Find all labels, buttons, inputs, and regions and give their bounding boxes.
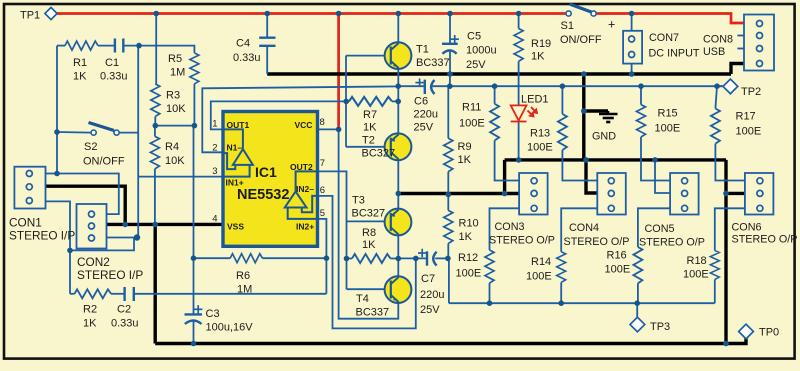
svg-text:USB: USB: [703, 46, 725, 58]
wire CON7 pins: [631, 14, 633, 31]
svg-text:10K: 10K: [166, 103, 186, 115]
svg-text:5: 5: [320, 208, 325, 219]
wire black tee down to rail4: [153, 224, 156, 343]
connector CON3: [519, 173, 548, 215]
svg-text:25V: 25V: [466, 59, 486, 71]
connector CON1: [14, 167, 45, 209]
wire IC pin8 blue drop / T4 collector return: [317, 129, 398, 318]
resistor R8: [352, 254, 391, 263]
svg-text:T4: T4: [356, 293, 369, 305]
svg-text:ON/OFF: ON/OFF: [560, 34, 602, 46]
capacitor C2: [125, 287, 134, 301]
wire T3 emitter to rail2: [397, 194, 399, 209]
svg-text:CON3: CON3: [495, 221, 525, 233]
resistor R11: [490, 104, 499, 141]
svg-text:TP0: TP0: [759, 327, 779, 339]
op-amp N2 triangle: [285, 171, 318, 219]
wire red-rail drop to R3: [155, 14, 157, 85]
wire TP3 drop: [636, 303, 638, 318]
wire LED1 cathode to rail3: [518, 122, 520, 160]
svg-text:25V: 25V: [414, 122, 434, 134]
svg-text:R14: R14: [531, 256, 551, 268]
svg-text:R13: R13: [530, 128, 550, 140]
capacitor C4: [259, 38, 275, 46]
svg-text:R8: R8: [362, 227, 376, 239]
wire IC pin7 to base rail T3 T4: [317, 171, 346, 289]
svg-text:R11: R11: [462, 102, 481, 114]
svg-text:+: +: [608, 18, 615, 32]
svg-text:0.33u: 0.33u: [111, 318, 139, 330]
wire R15 chain to CON5 top: [640, 86, 642, 104]
switch S1: [566, 4, 596, 16]
svg-text:100E: 100E: [683, 269, 709, 281]
svg-text:R10: R10: [459, 218, 479, 230]
ground rail1 black: [267, 72, 731, 75]
svg-text:1: 1: [212, 119, 217, 130]
wire C1 line: [57, 45, 65, 47]
wire red VCC drop to IC pin8: [337, 14, 340, 130]
capacitor C7: [427, 251, 437, 265]
connector CON4: [597, 173, 626, 215]
svg-text:7: 7: [320, 158, 325, 169]
svg-text:0.33u: 0.33u: [233, 52, 261, 64]
switch S2: [89, 123, 120, 136]
svg-text:25V: 25V: [420, 304, 440, 316]
connector CON7: [623, 31, 642, 64]
svg-text:1K: 1K: [83, 318, 97, 330]
wire R3 bottom lead: [154, 117, 156, 126]
resistor R16: [633, 247, 642, 283]
svg-text:ON/OFF: ON/OFF: [83, 156, 125, 168]
wire C7 line: [398, 257, 427, 259]
svg-text:VSS: VSS: [227, 222, 244, 232]
svg-text:100E: 100E: [527, 142, 553, 154]
svg-text:100E: 100E: [526, 271, 552, 283]
svg-text:R18: R18: [687, 255, 707, 267]
wire C2 to IN2+ riser: [134, 293, 327, 295]
svg-text:OUT1: OUT1: [227, 120, 250, 130]
wire T1 emitter to T2: [397, 69, 399, 134]
svg-text:CON1: CON1: [9, 216, 42, 230]
wire T2 collector to rail2: [397, 160, 399, 193]
wire C7 right down to out rail: [448, 258, 450, 303]
wire TP2 stub: [717, 85, 724, 87]
wire R5 bottom lead down to R6: [193, 84, 195, 126]
svg-text:CON4: CON4: [569, 222, 599, 234]
svg-text:R17: R17: [736, 111, 756, 123]
wire CON1 pin1 node to CON2 pin1: [57, 174, 119, 215]
out rail bottom blue: [449, 302, 715, 304]
svg-text:IN2+: IN2+: [296, 222, 314, 232]
svg-text:1000u: 1000u: [466, 45, 497, 57]
svg-text:LED1: LED1: [521, 94, 549, 106]
svg-text:STEREO I/P: STEREO I/P: [9, 229, 75, 243]
svg-text:GND: GND: [592, 131, 616, 143]
svg-text:C6: C6: [414, 96, 428, 108]
connector CON2: [77, 204, 107, 249]
wire CON5 middle from rail3: [655, 160, 670, 193]
transistor T4: [385, 276, 412, 303]
resistor R18: [710, 251, 719, 280]
wire T3 T4 node: [397, 235, 399, 276]
capacitor C1: [115, 39, 123, 53]
svg-text:100E: 100E: [605, 264, 631, 276]
svg-text:1K: 1K: [362, 239, 376, 251]
resistor R12: [485, 250, 494, 283]
resistor R14: [557, 252, 566, 283]
wire R2 C2 line: [70, 293, 75, 295]
svg-text:TP1: TP1: [20, 10, 40, 22]
wire CON8 stubs: [737, 35, 744, 37]
resistor R15: [637, 105, 646, 137]
svg-text:STEREO I/P: STEREO I/P: [77, 268, 143, 282]
svg-text:4: 4: [212, 214, 217, 225]
test point TP2: [723, 79, 738, 94]
wire R18 chain CON6 bottom: [715, 208, 745, 250]
capacitor C3: [185, 314, 203, 324]
svg-text:VCC: VCC: [295, 120, 313, 130]
svg-text:R5: R5: [168, 53, 182, 65]
wire R4 top lead: [154, 126, 156, 137]
wire R13 chain to CON4 top: [561, 86, 563, 114]
svg-text:1K: 1K: [363, 122, 377, 134]
svg-text:100E: 100E: [655, 123, 681, 135]
svg-text:1K: 1K: [531, 51, 545, 63]
svg-text:220u: 220u: [420, 289, 444, 301]
ground rail4 black bottom: [155, 342, 726, 345]
wire CON1 pin1 stub: [46, 173, 58, 175]
resistor R3: [151, 84, 160, 116]
svg-text:BC337: BC337: [356, 307, 390, 319]
wire C4 leads: [266, 14, 268, 38]
svg-text:R4: R4: [165, 141, 179, 153]
svg-text:BC327: BC327: [362, 148, 396, 160]
svg-text:R12: R12: [458, 252, 478, 264]
wire rail1 to audio line riser: [449, 74, 451, 86]
svg-text:NE5532: NE5532: [237, 187, 289, 203]
svg-text:100u,16V: 100u,16V: [206, 322, 254, 334]
svg-text:1K: 1K: [459, 231, 473, 243]
wire black rail3 down to rail2: [503, 160, 506, 194]
transistor T1: [385, 42, 412, 69]
wire CON1 pin3 stub down: [46, 201, 71, 293]
resistor R2: [75, 289, 111, 298]
svg-text:1M: 1M: [170, 67, 185, 79]
wire R6 to C3: [193, 258, 195, 314]
svg-text:1K: 1K: [73, 71, 87, 83]
wire base rail T1 T2: [345, 56, 347, 147]
svg-text:STEREO O/P: STEREO O/P: [489, 235, 555, 247]
svg-text:STEREO O/P: STEREO O/P: [639, 237, 705, 249]
wire black CON6 middle / down to rail4: [724, 160, 727, 344]
capacitor C6: [425, 80, 435, 94]
svg-text:220u: 220u: [414, 109, 438, 121]
svg-text:100E: 100E: [736, 126, 762, 138]
svg-text:BC327: BC327: [352, 208, 386, 220]
svg-text:2: 2: [212, 143, 217, 154]
svg-text:TP3: TP3: [650, 321, 670, 333]
svg-text:CON5: CON5: [645, 223, 675, 235]
wire S2 connections: [57, 131, 91, 134]
wire red after S1 to CON8: [596, 14, 744, 24]
transistor T3: [385, 209, 412, 236]
wire input select vertical: [137, 46, 139, 238]
svg-text:R9: R9: [458, 141, 472, 153]
resistor R9: [444, 138, 453, 171]
wire R9 leads: [447, 86, 449, 138]
svg-text:C4: C4: [236, 38, 250, 50]
svg-text:IN1+: IN1+: [226, 178, 244, 188]
svg-text:C7: C7: [421, 273, 435, 285]
wire C5 leads: [449, 14, 451, 44]
wire R3/R5 node: [155, 125, 194, 127]
connector CON5: [670, 173, 699, 215]
svg-text:0.33u: 0.33u: [100, 71, 128, 83]
wire black CON2 pin2 stub: [107, 223, 126, 226]
test point TP3: [630, 317, 645, 332]
svg-text:C3: C3: [206, 308, 220, 320]
svg-text:STEREO O/P: STEREO O/P: [564, 236, 630, 248]
wire black TP0 link: [726, 338, 746, 344]
svg-text:N1–: N1–: [227, 143, 243, 153]
test point TP1: [45, 7, 57, 19]
svg-text:R2: R2: [83, 304, 97, 316]
op-amp N1 triangle: [223, 129, 253, 176]
svg-text:STEREO O/P: STEREO O/P: [732, 234, 798, 246]
svg-text:T2: T2: [362, 135, 375, 147]
svg-text:OUT2: OUT2: [290, 162, 313, 172]
resistor R13: [558, 114, 567, 150]
svg-text:R19: R19: [531, 38, 551, 50]
wire R14 chain CON4 bottom: [561, 208, 597, 251]
wire R11 chain to CON3 top: [494, 86, 496, 104]
wire black GND drop and CON4 middle: [584, 74, 608, 111]
node +5V red rail: [57, 12, 566, 15]
svg-text:IN2–: IN2–: [296, 184, 314, 194]
svg-text:CON7: CON7: [649, 32, 679, 44]
svg-text:R6: R6: [236, 270, 250, 282]
svg-text:R1: R1: [73, 57, 87, 69]
wire CON2 pin3 stub: [107, 237, 139, 239]
wire R17 chain to CON6 top: [715, 86, 717, 108]
resistor R1: [65, 41, 98, 50]
resistor R7: [349, 97, 392, 106]
wire IC pin1 to R7: [211, 101, 346, 129]
op-amp U1 IC1 body: [223, 112, 318, 247]
wire R4 bottom to VSS tee: [154, 169, 156, 225]
resistor R17: [711, 109, 720, 144]
LED LED1: [511, 105, 537, 121]
svg-text:R15: R15: [658, 108, 678, 120]
svg-text:T3: T3: [352, 195, 365, 207]
wire R6 leads: [194, 257, 231, 259]
svg-text:100E: 100E: [459, 118, 485, 130]
svg-text:S1: S1: [561, 20, 574, 32]
svg-text:IC1: IC1: [255, 164, 277, 180]
resistor R4: [150, 136, 159, 168]
wire black CON8 pin4 to rail1: [731, 64, 744, 75]
svg-text:3: 3: [212, 166, 217, 177]
wire T1 collector to red rail: [397, 14, 399, 43]
svg-text:10K: 10K: [165, 155, 185, 167]
svg-text:C5: C5: [467, 31, 481, 43]
svg-text:1M: 1M: [237, 284, 252, 296]
wire R19 leads: [518, 14, 520, 29]
wire C3 bottom to rail4: [193, 321, 195, 344]
ground rail3 black: [505, 158, 726, 161]
svg-text:BC337: BC337: [416, 57, 450, 69]
svg-text:C1: C1: [105, 57, 119, 69]
svg-text:C2: C2: [117, 304, 131, 316]
wire CON2 pin3 riser: [70, 238, 134, 251]
resistor R6: [230, 254, 262, 263]
connector CON8: [744, 15, 774, 71]
svg-text:CON2: CON2: [77, 255, 110, 269]
capacitor C5: [442, 44, 458, 54]
resistor R5: [190, 53, 199, 84]
resistor R19: [514, 29, 523, 62]
svg-text:CON8: CON8: [703, 34, 733, 46]
wire IC pin3 line: [138, 176, 223, 178]
test point TP0: [739, 324, 754, 339]
wire IC pin6 feedback: [317, 196, 415, 329]
svg-text:8: 8: [320, 117, 325, 128]
resistor R10: [444, 210, 453, 243]
wire R7 right lead: [392, 100, 398, 102]
svg-text:R7: R7: [363, 109, 377, 121]
svg-text:TP2: TP2: [741, 86, 761, 98]
wire black CON1 pin2 to VSS tee: [46, 186, 126, 224]
svg-text:1K: 1K: [458, 154, 472, 166]
wire R12 chain CON3 bottom: [490, 208, 520, 250]
svg-text:CON6: CON6: [732, 222, 762, 234]
wire IC pin2 to output rail: [202, 86, 398, 152]
wire black VSS run to IC pin4: [125, 223, 223, 226]
wire R8 leads: [347, 258, 353, 260]
svg-text:T1: T1: [416, 44, 429, 56]
wire audio line right: [398, 85, 425, 87]
svg-text:R3: R3: [166, 90, 180, 102]
svg-text:100E: 100E: [456, 268, 482, 280]
wire R16 chain CON5 bottom: [638, 208, 670, 247]
svg-text:S2: S2: [84, 141, 97, 153]
wire R10 leads: [447, 195, 449, 211]
transistor T2: [385, 133, 412, 160]
ground rail2 black to CON3 middle: [398, 192, 519, 195]
wire R1 left vertical: [56, 46, 58, 174]
svg-text:R16: R16: [607, 250, 627, 262]
connector CON6: [745, 173, 774, 215]
svg-text:DC INPUT: DC INPUT: [649, 48, 700, 60]
svg-text:6: 6: [320, 185, 325, 196]
ground symbol: [599, 111, 618, 122]
